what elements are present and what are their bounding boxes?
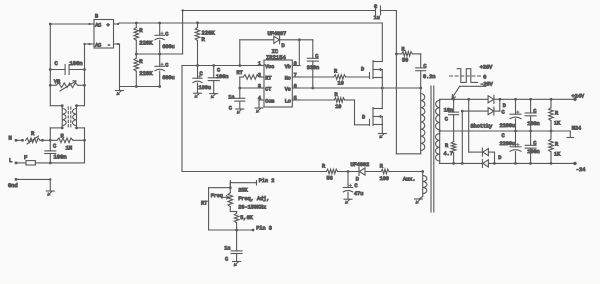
svg-text:C: C [217,68,220,74]
wire top return bus [183,10,376,12]
junction +24 C3 [529,98,532,101]
diode UF4002 D [358,168,360,176]
svg-text:R: R [380,163,383,169]
junction Pin3 node [235,229,238,232]
capacitor C 100n (Vcc) [213,66,215,78]
svg-text:D: D [282,43,285,49]
net flag Pin 2 [230,182,256,184]
net flag Pin 3 [237,229,253,231]
junction Vcc C100n [212,64,215,67]
junction top bus C1 [158,22,161,25]
svg-text:RT: RT [201,201,207,207]
svg-text:C: C [200,71,203,77]
svg-text:+: + [107,23,110,29]
wire right rail lower [84,128,86,163]
svg-text:Ho: Ho [285,76,291,82]
junction mid bus R2 [135,53,138,56]
svg-text:UF4002: UF4002 [351,162,370,168]
junction DC- C2 [158,85,161,88]
waveform zero dashes [450,75,482,77]
svg-text:1: 1 [258,61,261,67]
svg-text:C: C [374,4,377,10]
diode UF4007 D [274,36,280,43]
svg-text:D: D [498,155,501,161]
capacitor C 100n (X-cap) [49,140,51,151]
diode D (rect -24 b) [481,159,483,167]
capacitor C 100n (across line) [50,69,65,71]
wire right rail upper [84,44,86,106]
junction DC- R2 [135,85,138,88]
svg-text:47u: 47u [354,191,363,197]
svg-text:C: C [445,117,448,123]
junction CT node [238,87,241,90]
choke winding right [77,105,85,107]
svg-text:100n: 100n [527,149,539,155]
wire charge line [182,171,326,173]
resistor R 10 (high gate) [300,76,334,78]
resistor R 1K (bottom bleeder) [550,131,552,139]
svg-text:C: C [354,183,357,189]
bracket RT wiper [209,187,231,189]
svg-text:10n: 10n [444,107,453,113]
transformer T1 primary [421,94,425,151]
svg-text:680u: 680u [162,44,174,50]
svg-text:L: L [9,157,12,164]
svg-text:Vs: Vs [285,87,291,93]
wire DC+ bus [117,23,119,25]
wire Gnd [16,178,50,180]
junction M24 R1 [550,130,553,133]
wire low gate elbow [354,100,356,125]
pin 6 Vs [292,87,300,89]
svg-text:Pin 2: Pin 2 [259,178,275,184]
capacitor C 100u [197,66,199,79]
svg-text:100n: 100n [216,74,228,80]
svg-text:7: 7 [294,72,297,78]
thermistor R (inrush) [26,138,41,143]
svg-text:+24V: +24V [572,93,585,99]
ground arrow (C47u) [344,198,352,200]
svg-text:C: C [502,110,505,116]
svg-text:D: D [503,103,506,109]
transformer T1 core [430,86,432,212]
wire -24 diode join [488,151,494,153]
terminal L [15,162,18,165]
waveform pointer [460,85,486,87]
wire N line to 1M [50,139,57,141]
wire 1M to right rail [73,139,85,141]
resistor R 10 (low gate) [300,99,334,101]
junction snubber bottom [419,87,422,90]
pin 2 RT [259,76,264,78]
junction top bus R3 [196,21,199,24]
diode D (rect -24 a) [481,148,483,156]
ground arrow (aux) [415,198,423,200]
wire L line [35,162,84,164]
junction -24 R2 [550,162,553,165]
svg-text:Freq, Adj,: Freq, Adj, [238,196,269,202]
choke winding left [50,105,62,107]
pin 7 Ho [292,76,300,78]
junction M24 C3 [529,130,532,133]
ground chassis (mains earth) [46,190,54,192]
svg-text:10: 10 [335,104,341,110]
wire upper feed to lower diode [467,98,470,101]
varistor VR [50,84,56,86]
svg-text:B: B [95,14,98,20]
wire +24 diode join [494,98,500,100]
svg-text:4.7: 4.7 [444,151,453,157]
wire Q2 source down [381,125,383,134]
svg-text:R: R [402,46,405,52]
wire RT elbow [239,77,241,88]
terminal +24V [573,98,576,101]
pin 5 Lo [292,99,300,101]
resistor R 220K (lower) [135,54,137,58]
wire AC1 to bridge [50,23,89,25]
wire pot top [229,183,231,193]
wire Q1 source to Vs [381,78,383,89]
svg-text:100u: 100u [199,85,211,91]
wire pot to 5.6K [229,207,231,212]
resistor R 1M [57,138,73,143]
resistor R 220K (upper) [135,23,137,28]
svg-text:Freq: Freq [211,193,223,199]
pin 3 CT [260,87,265,89]
junction Vs C330n [311,87,314,90]
wire center tap rail [440,130,571,132]
wire Vcc bus left drop [181,66,183,172]
capacitor C 1n (ext) [236,230,238,251]
svg-text:D: D [362,115,365,121]
svg-text:Aux.: Aux. [403,176,415,182]
diode D (rect +24 a) [488,96,494,103]
svg-text:R: R [445,143,448,149]
svg-text:VR: VR [54,79,60,85]
junction -24 C4 [529,162,532,165]
wire N to node [40,139,50,141]
junction M24 C1 [514,130,517,133]
capacitor C 100n (top out) [530,99,532,113]
terminal N [15,139,18,142]
wire Q1 drain to DC+ [381,23,383,62]
junction snubber top [395,53,398,56]
pin 8 Vb [292,65,300,67]
capacitor C 1u [375,6,377,15]
potentiometer 25K [228,193,233,207]
wire DC- bus [120,86,160,88]
svg-text:2200u: 2200u [500,123,516,129]
diode D (rect +24 b) [488,108,494,115]
ground arrow (1n ext) [233,261,241,263]
svg-text:1K: 1K [554,121,561,127]
wire left rail lower [49,128,51,140]
junction top bus R1 [135,22,138,25]
junction mid bus C2 [158,53,161,56]
capacitor C 2200u (bottom) [515,131,517,147]
svg-text:1M: 1M [66,145,73,152]
fuse F [26,161,35,165]
bridge rectifier B [94,20,114,49]
pin 1 Vcc [260,65,265,67]
svg-text:C: C [502,133,505,139]
wire bridge minus down [117,43,119,45]
resistor R 220K (startup) [197,23,199,28]
svg-text:Vb: Vb [285,64,291,70]
resistor R 56 (charge) [326,169,337,174]
junction -24 C2 [514,162,517,165]
snubber R 4.7 [451,142,456,153]
svg-text:100n: 100n [527,121,539,127]
svg-text:5,6K: 5,6K [240,215,253,221]
svg-text:330n: 330n [307,65,319,71]
transformer T1 secondary upper [435,100,439,130]
svg-text:C: C [229,105,232,111]
capacitor C 100n (bottom out) [530,131,532,145]
svg-text:100n: 100n [54,154,67,161]
svg-text:1K: 1K [554,152,561,158]
svg-text:0: 0 [483,75,486,81]
svg-text:UF4007: UF4007 [268,31,287,37]
svg-text:R: R [555,111,558,117]
junction C47u [347,170,350,173]
wire diode anode riser [239,40,241,66]
capacitor C 0.2n (snubber) [419,53,422,55]
ground arrow (CT cap) [236,108,244,110]
resistor 5.6K [234,213,239,223]
capacitor C 47u (+) [347,172,349,188]
snubber C 10n [453,99,455,112]
svg-text:R: R [555,142,558,148]
svg-text:2200u: 2200u [500,141,516,147]
svg-text:Shottky: Shottky [471,123,493,129]
capacitor C 680u (upper) [159,23,161,35]
capacitor C 330n (bootstrap) [312,40,314,59]
svg-text:RT: RT [265,76,271,82]
junction Vcc diode [238,64,241,67]
capacitor C 2200u (top) [515,99,517,114]
ground arrow (C100u) [194,92,202,94]
svg-text:1n: 1n [228,94,234,100]
svg-text:AC: AC [95,43,101,49]
wire cross low-to-upper [461,110,464,113]
resistor R 1K (top bleeder) [550,99,552,107]
wire secondary bottom rail [440,162,483,164]
choke core dashes [67,107,69,127]
pin 4 Com [259,99,264,101]
wire to diode [348,171,359,173]
svg-text:M24: M24 [572,125,581,131]
wire top return to primary [381,10,397,12]
svg-text:C: C [423,63,426,69]
ground arrow (Q2 source) [378,133,386,135]
svg-text:1n: 1n [224,245,230,251]
capacitor C 680u (lower) [159,54,161,66]
wire -24 rail [488,162,575,164]
resistor R 56 (snubber) [396,53,401,55]
wire cathode to Vb [280,39,313,41]
svg-text:680u: 680u [162,75,174,81]
capacitor C 1n (CT) [239,88,241,98]
wire Vcc bus [182,65,264,67]
svg-text:N: N [9,135,12,142]
wire Com to ground [258,100,260,108]
svg-text:AC: AC [95,23,101,29]
svg-text:R: R [334,68,337,74]
wire left rail upper [49,24,51,106]
ground arrow (C100n) [210,93,218,95]
ground arrow (Com) [255,107,263,109]
svg-text:Pin 3: Pin 3 [256,225,272,231]
svg-text:10: 10 [338,81,344,87]
svg-text:56: 56 [327,175,333,181]
wire diode2 feed [462,110,488,112]
transistor Q2 (lower MOSFET) [369,120,371,126]
svg-text:Vcc: Vcc [265,64,274,70]
junction cap-L [49,162,52,165]
svg-text:100: 100 [380,176,389,182]
transistor Q1 (upper MOSFET) [369,73,371,79]
svg-text:25K: 25K [238,187,248,193]
wire aux to ground [422,194,424,197]
svg-text:IR2154: IR2154 [266,54,287,61]
svg-text:220K: 220K [139,39,153,46]
svg-text:C: C [533,141,536,147]
wire AC2 to filter [85,43,90,45]
svg-text:1u: 1u [374,15,380,21]
svg-text:56: 56 [402,58,408,64]
ground arrow DC- (bridge) [119,87,121,91]
wire primary return bottom [396,153,420,155]
resistor RT (timing) [240,76,243,78]
wire divider mid bus [136,53,182,55]
svg-text:Com: Com [265,99,274,105]
junction 1M-rail [83,139,86,142]
IC U1 IR2154 box [264,60,292,107]
transformer T1 aux winding [423,176,427,194]
svg-text:100n: 100n [70,60,83,67]
resistor R 100 [365,171,381,173]
svg-text:C: C [533,109,536,115]
svg-text:220K: 220K [139,70,153,77]
svg-text:0.2n: 0.2n [423,74,435,80]
wire mid bus riser [182,11,184,55]
svg-text:F: F [24,154,27,161]
svg-text:C: C [225,256,228,262]
svg-text:D: D [361,66,364,72]
svg-text:5: 5 [294,95,297,101]
junction N-rail [49,139,52,142]
svg-text:C: C [165,63,168,69]
svg-text:-: - [107,41,110,48]
svg-text:RT: RT [237,70,243,76]
svg-text:R: R [322,163,325,169]
svg-text:CT: CT [265,87,271,93]
junction +24 C1 [514,98,517,101]
svg-text:8: 8 [294,61,297,67]
svg-text:20-150KHz: 20-150KHz [238,204,266,210]
wire secondary top rail [440,98,488,100]
transformer T1 secondary lower [436,134,440,161]
junction Vcc R3 [196,64,199,67]
svg-text:C: C [315,54,318,60]
wire +24 rail [500,98,575,100]
svg-text:Lo: Lo [285,99,291,105]
svg-text:6: 6 [294,83,297,89]
svg-text:D: D [356,177,359,183]
terminal M24 [569,131,571,137]
svg-text:Gnd: Gnd [8,183,18,189]
wire Q2 drain to Vs [381,88,383,109]
svg-text:R: R [335,92,338,98]
svg-text:-24: -24 [576,167,585,173]
waveform square wave [457,69,477,83]
wire Vs bus [300,87,421,89]
junction +24 R1 [550,98,553,101]
node Aux [421,170,424,173]
terminal -24 [573,162,576,165]
svg-text:+26V: +26V [480,64,493,70]
terminal Gnd [15,178,18,181]
svg-text:C: C [165,32,168,38]
